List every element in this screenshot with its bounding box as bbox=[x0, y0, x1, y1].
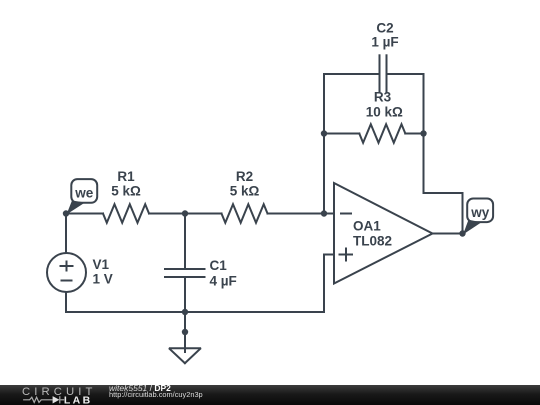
svg-text:LAB: LAB bbox=[64, 395, 93, 405]
flag we tail bbox=[67, 201, 86, 215]
svg-text:C1: C1 bbox=[210, 258, 228, 273]
ground bbox=[170, 348, 201, 363]
capacitor C1 bbox=[165, 269, 205, 277]
junction dot ground stub bbox=[182, 329, 188, 335]
wire R1 to R2 through node bbox=[149, 213, 222, 215]
junction dot input node bbox=[63, 210, 69, 216]
wire input node down to V1 top bbox=[65, 214, 67, 254]
wire bottom rail up to non-inverting input bbox=[324, 255, 334, 313]
wire C1 bottom lead bbox=[184, 277, 186, 312]
junction dot R3 left bbox=[321, 130, 327, 136]
resistor R3 bbox=[359, 124, 405, 143]
footer bar bbox=[0, 385, 540, 405]
wire input node to R1 bbox=[66, 213, 103, 215]
attribution line 1 bbox=[109, 383, 171, 393]
attribution line 2 bbox=[109, 390, 203, 399]
junction dot inverting node bbox=[321, 210, 327, 216]
wire op-amp output bbox=[433, 233, 463, 235]
resistor R1 bbox=[103, 204, 149, 223]
svg-text:we: we bbox=[74, 185, 94, 200]
svg-text:4 µF: 4 µF bbox=[210, 274, 237, 289]
svg-text:wy: wy bbox=[470, 205, 490, 220]
wire R3 right lead bbox=[405, 133, 423, 135]
wire bottom rail bbox=[66, 311, 324, 313]
svg-text:OA1: OA1 bbox=[353, 219, 381, 234]
flag wy tail bbox=[463, 220, 482, 235]
svg-text:5 kΩ: 5 kΩ bbox=[230, 184, 260, 199]
flag wy box bbox=[467, 199, 493, 223]
svg-text:10 kΩ: 10 kΩ bbox=[366, 105, 403, 120]
svg-text:1 V: 1 V bbox=[93, 272, 113, 287]
wire C2 right lead bbox=[387, 73, 424, 75]
voltage source V1 bbox=[47, 253, 86, 292]
svg-text:R3: R3 bbox=[374, 90, 392, 105]
CircuitLab logo bbox=[0, 384, 108, 405]
svg-text:R2: R2 bbox=[236, 169, 253, 184]
svg-text:R1: R1 bbox=[117, 169, 135, 184]
op-amp OA1 bbox=[334, 183, 433, 284]
junction dot C1 top node bbox=[182, 210, 188, 216]
junction dot R3 right bbox=[420, 130, 426, 136]
flag we box bbox=[71, 179, 97, 203]
svg-text:C2: C2 bbox=[376, 21, 393, 36]
junction dot bottom rail bbox=[182, 309, 188, 315]
wire R2 to op-amp inverting input bbox=[268, 213, 335, 215]
junction dot output node bbox=[459, 230, 465, 236]
svg-text:V1: V1 bbox=[93, 257, 110, 272]
wire C2 left lead bbox=[324, 73, 380, 75]
svg-text:TL082: TL082 bbox=[353, 234, 392, 249]
wire C1 top lead bbox=[184, 214, 186, 270]
svg-text:5 kΩ: 5 kΩ bbox=[111, 184, 141, 199]
wire feedback right side bbox=[424, 74, 463, 234]
svg-text:1 µF: 1 µF bbox=[371, 35, 398, 50]
capacitor C2 bbox=[380, 55, 387, 91]
wire V1 bottom down bbox=[65, 292, 67, 312]
wire inverting node up to feedback bbox=[323, 74, 325, 214]
resistor R2 bbox=[222, 204, 268, 223]
wire to ground bbox=[184, 312, 186, 352]
wire R3 left lead bbox=[324, 133, 359, 135]
